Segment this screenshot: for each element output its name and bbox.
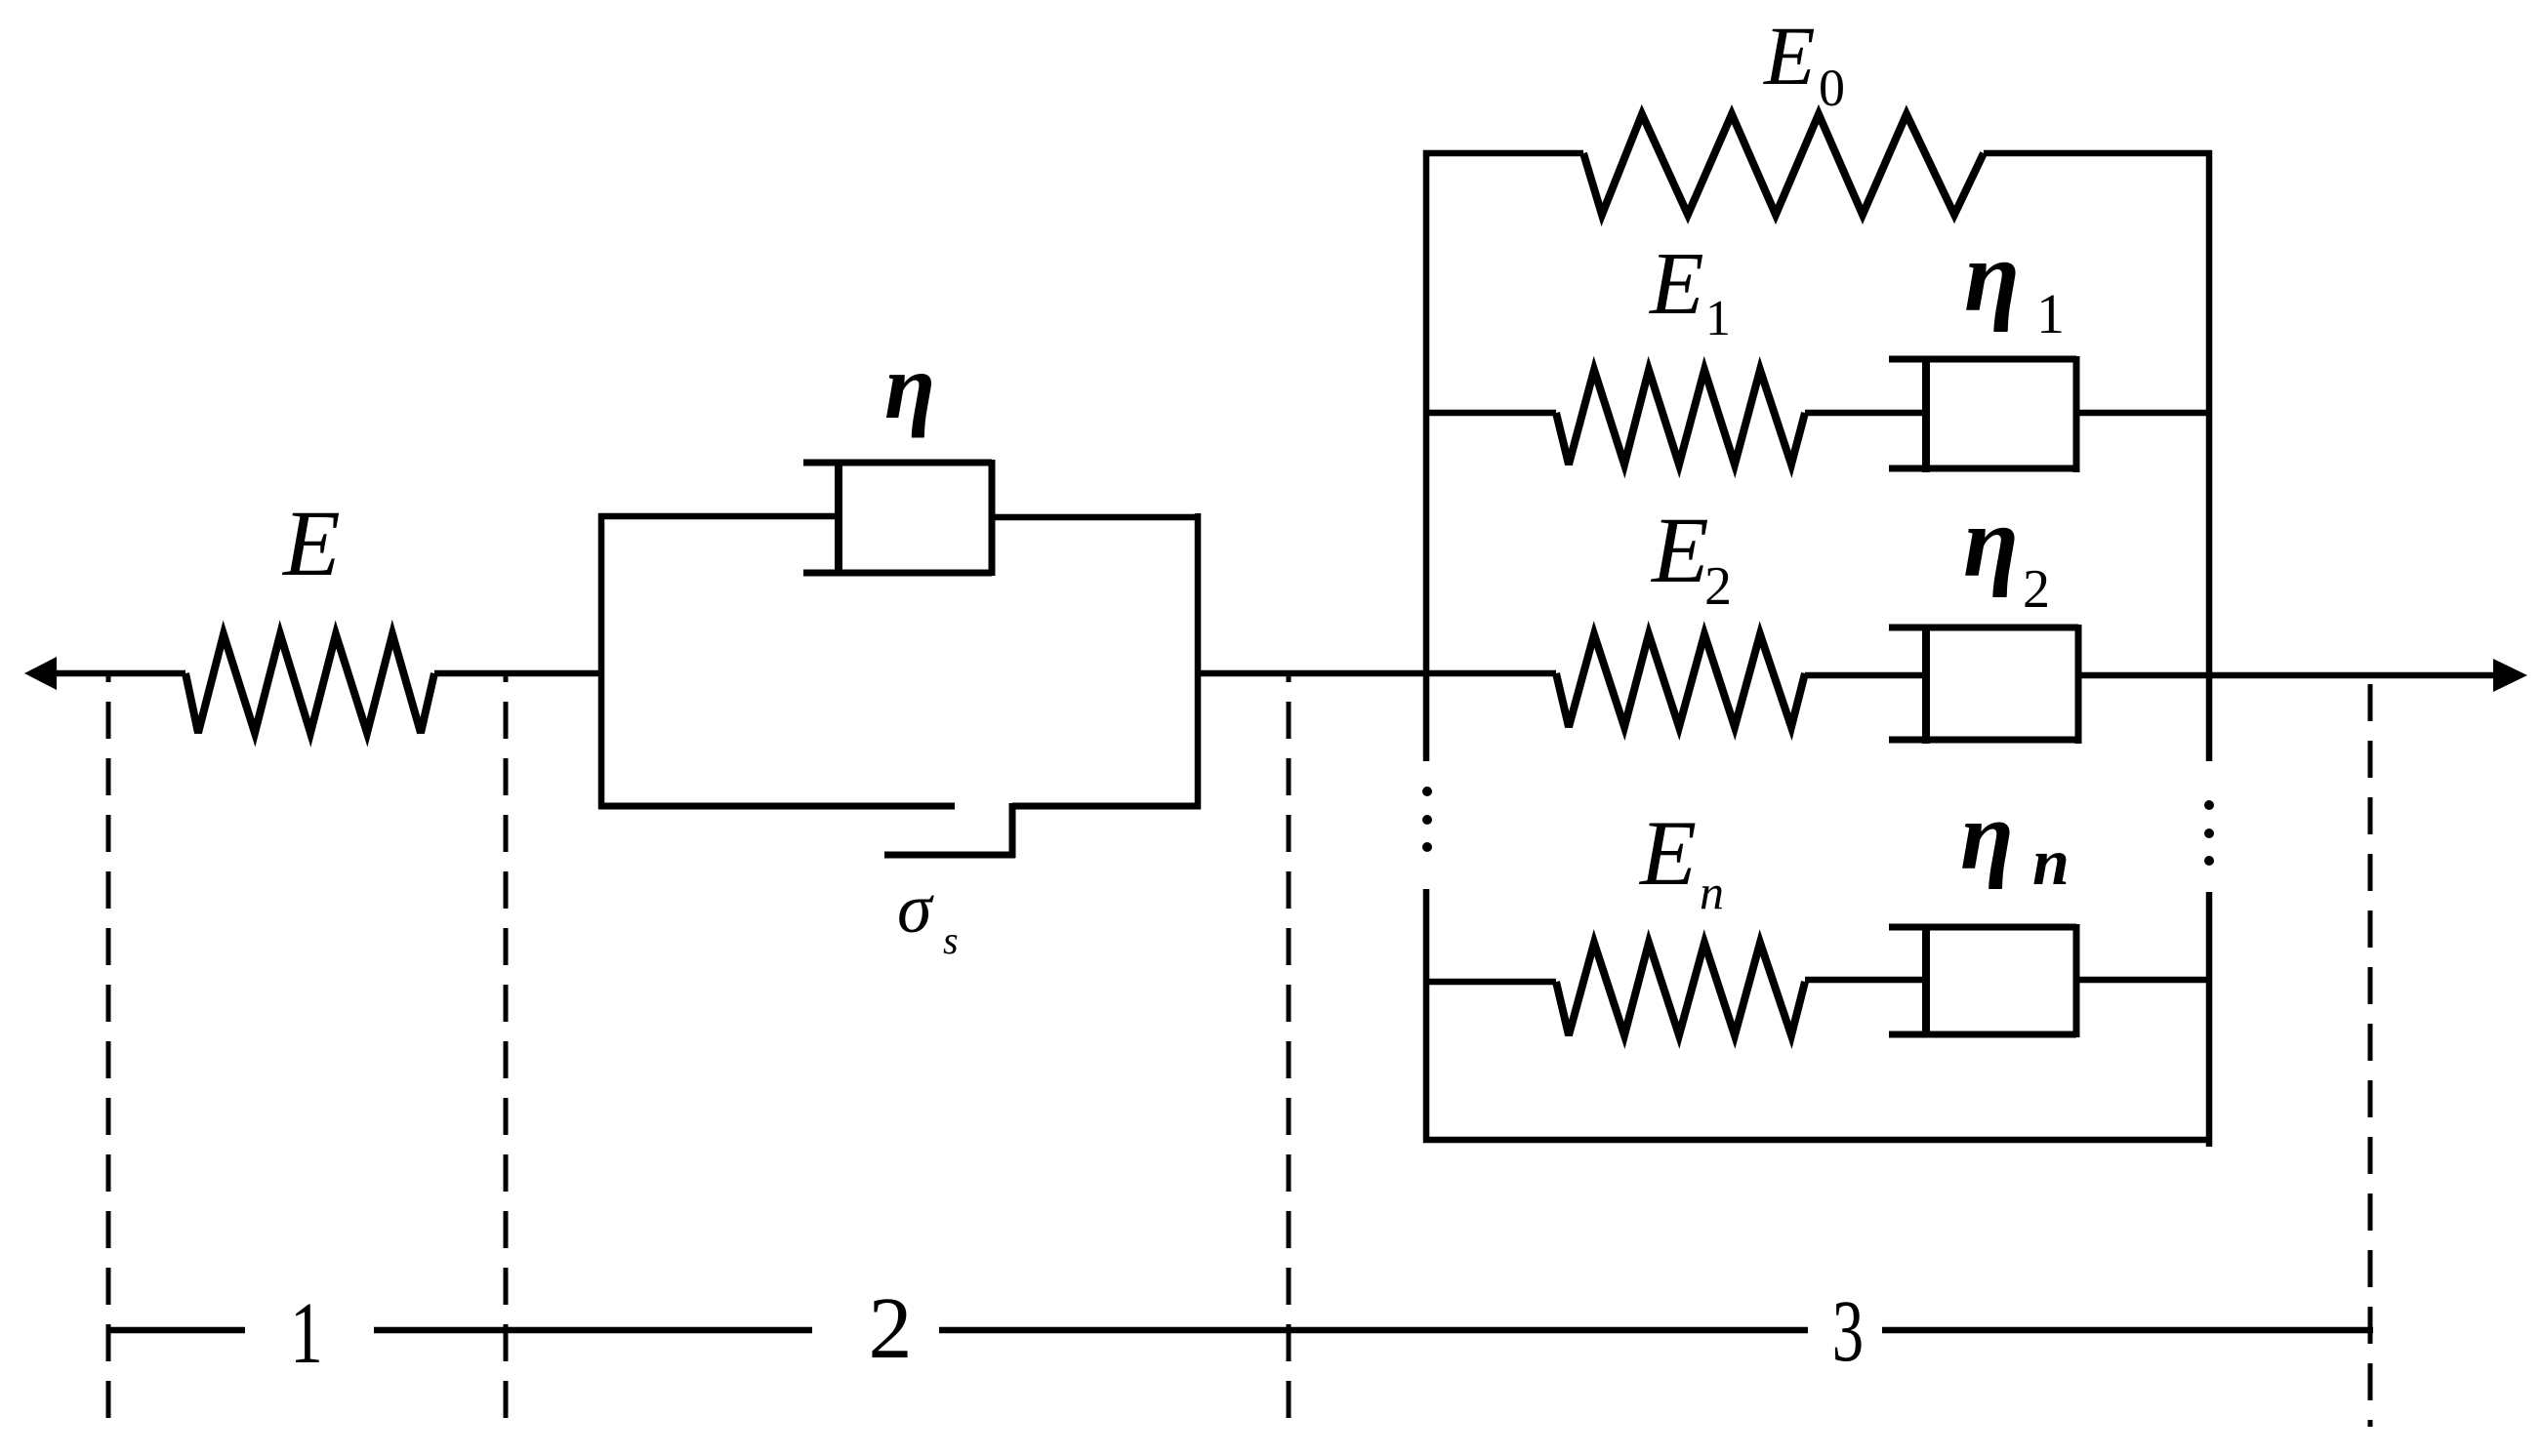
svg-text:E: E [1650,498,1709,602]
wire: row E2 left [1423,670,1556,677]
node: right box right vertical (lower) [2206,892,2213,1147]
svg-text:η: η [1960,782,2014,890]
wire: row E2 right [2078,672,2209,679]
wire: rod E1-eta1 [1805,410,1926,417]
node: middle box right vertical [1195,513,1202,809]
wire: middle box to right box [1198,670,1426,677]
spring E1 [1556,370,1805,465]
wire: top branch rod to dashpot piston [598,513,839,520]
svg-text:n: n [2032,825,2070,899]
svg-text:E: E [1648,234,1704,333]
svg-text:η: η [1963,486,2019,598]
dimension line segment zone 3 right [1882,1327,2373,1334]
svg-text:E: E [1638,801,1697,905]
dashpot eta (cylinder) [803,460,992,576]
node: middle box left vertical [598,513,605,809]
spring E2 [1556,634,1805,727]
dashed boundary line 3 [1287,672,1291,1427]
vertical ellipsis left [1422,787,1432,796]
svg-text:σ: σ [897,870,934,948]
svg-text:1: 1 [2036,282,2065,345]
svg-text:E: E [1762,9,1816,102]
svg-text:E: E [281,491,341,595]
svg-text:2: 2 [1704,556,1732,617]
slider sigma_s lower plate [884,852,1015,859]
dashpot eta2 (cylinder) [1889,625,2078,744]
node: right box right vertical (upper) [2206,150,2213,761]
left arrow [24,657,185,690]
wire: bottom branch upper slider plate [598,803,955,810]
svg-text:η: η [1964,221,2020,333]
dashpot eta2 (piston) [1922,625,1930,744]
wire: row E1 right [2076,410,2212,417]
wire: dashpot to right vertical [992,514,1201,521]
wire: right box to arrow [2209,672,2495,679]
dashpot etan (piston) [1922,924,1930,1037]
wire: row En left [1423,979,1556,986]
dashpot etan (cylinder) [1889,924,2076,1037]
spring E [185,634,434,733]
svg-text:1: 1 [1705,291,1731,346]
wire: row E0 right [1984,150,2212,157]
svg-text:n: n [1700,865,1724,919]
dashpot eta1 (cylinder) [1889,356,2076,472]
slider step [1009,803,1016,858]
dimension line segment zone 2 [374,1327,812,1334]
wire: rod En-etan [1805,977,1926,984]
wire: row En right [2076,977,2209,984]
dashed boundary line 2 [504,672,509,1427]
svg-text:η: η [884,335,935,438]
svg-text:3: 3 [1832,1282,1864,1380]
svg-text:2: 2 [2023,559,2050,620]
spring E0 [1583,114,1984,215]
wire: row E1 left [1423,410,1556,417]
svg-text:s: s [943,918,959,962]
dimension line segment zone 1 [108,1327,245,1334]
vertical ellipsis right [2204,800,2214,810]
svg-text:2: 2 [869,1280,913,1377]
wire: right box bottom [1423,1137,2212,1144]
wire: row E0 left [1423,150,1583,157]
svg-text:1: 1 [290,1285,323,1383]
wire: bottom branch right part [1012,803,1201,810]
node: right box left vertical (upper) [1423,150,1430,761]
node: right box left vertical (lower) [1423,889,1430,1143]
wire: rod E2-eta2 [1805,672,1926,679]
right arrow [2493,659,2527,692]
spring En [1556,943,1805,1035]
dashed boundary line 1 [106,672,111,1427]
dashed boundary line 4 [2368,672,2373,1427]
dimension line segment zone 3 left [939,1327,1808,1334]
dashpot eta (piston) [835,460,842,576]
dashpot eta1 (piston) [1922,356,1930,472]
svg-text:0: 0 [1819,59,1845,117]
wire [434,670,604,677]
